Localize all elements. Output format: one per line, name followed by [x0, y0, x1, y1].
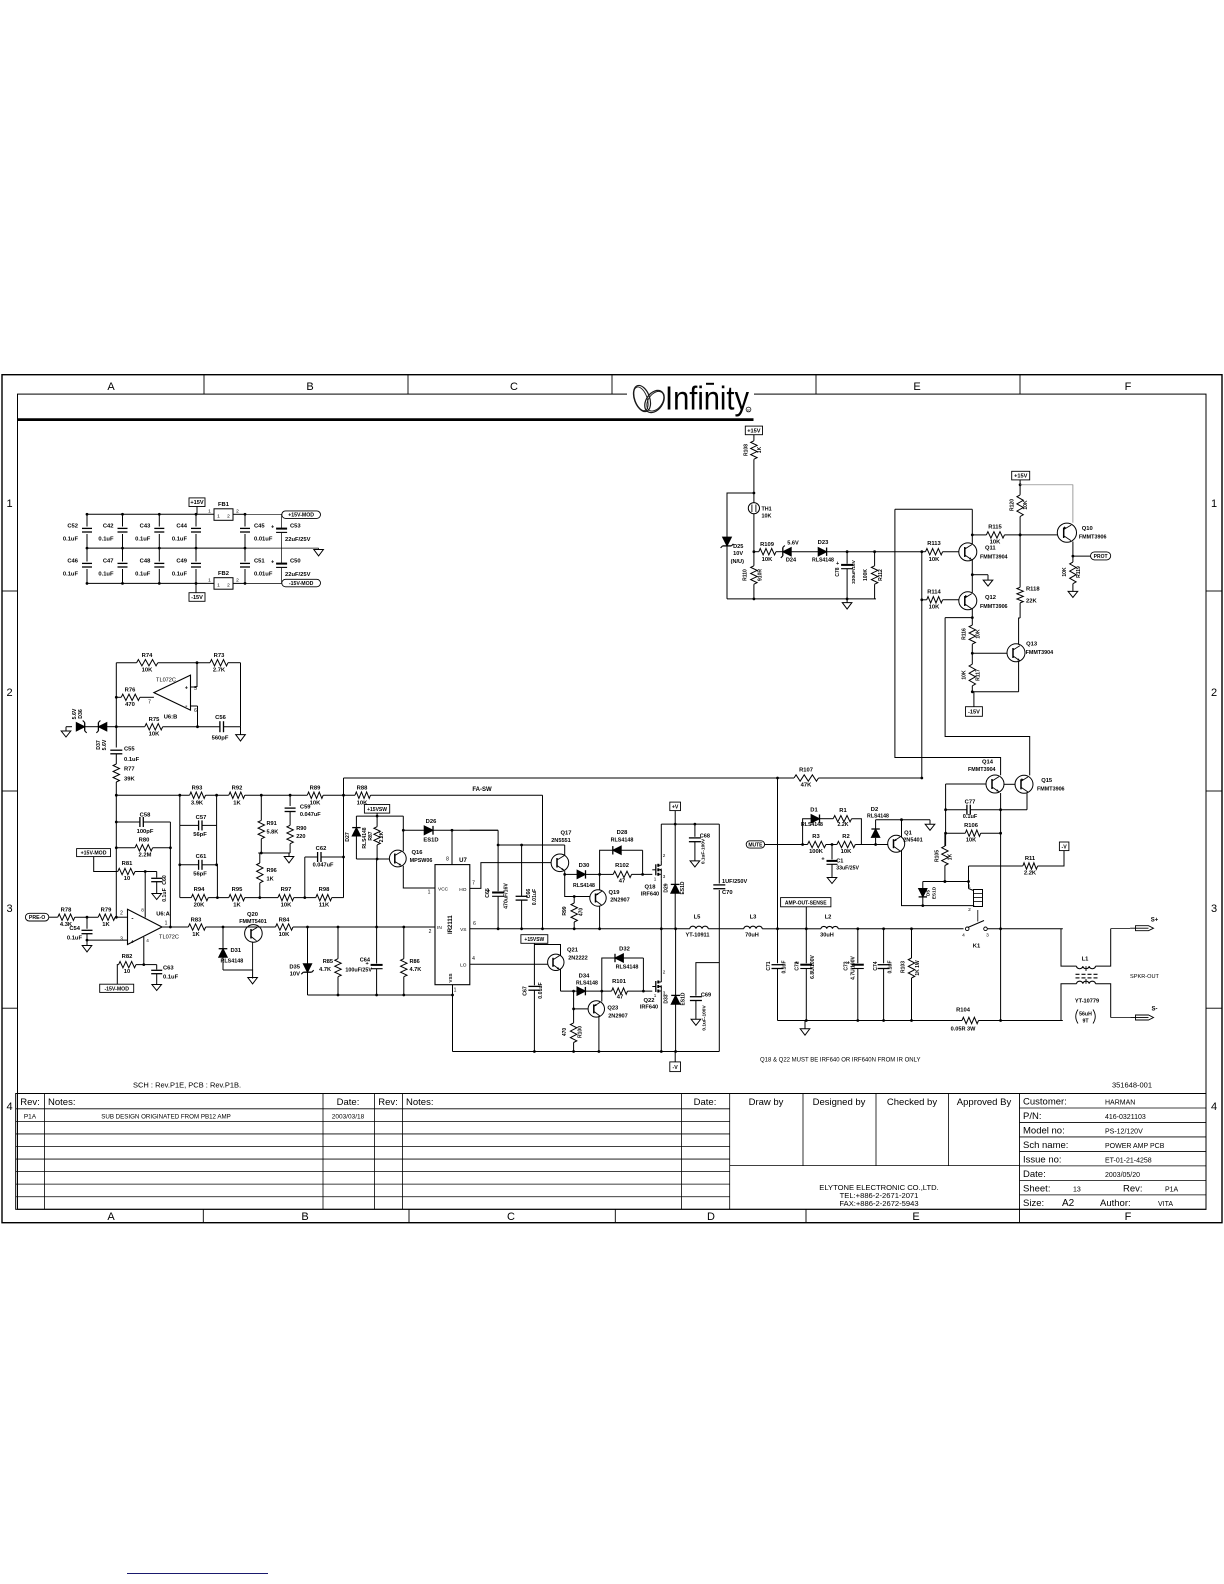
feedback capacitor C58 100pF — [116, 821, 139, 823]
svg-text:PS-12/120V: PS-12/120V — [1105, 1128, 1143, 1135]
svg-text:-V: -V — [1062, 844, 1068, 850]
svg-text:C64: C64 — [360, 958, 371, 964]
svg-text:1K: 1K — [233, 902, 241, 908]
capacitor C45 0.01uF — [244, 514, 246, 526]
svg-text:C63: C63 — [163, 966, 174, 972]
svg-text:416-0321103: 416-0321103 — [1105, 1114, 1146, 1121]
wire D2 to ground line — [876, 819, 930, 821]
diode D33 ES1D freewheel low — [675, 929, 677, 996]
svg-text:R97: R97 — [281, 887, 292, 893]
wire feedback right vertical — [169, 822, 171, 927]
resistor R115 10K — [986, 532, 1004, 538]
svg-text:D27: D27 — [345, 832, 351, 842]
svg-text:5.6V: 5.6V — [102, 739, 108, 750]
svg-text:1: 1 — [217, 514, 220, 520]
svg-text:R76: R76 — [125, 688, 136, 694]
resistor R91 5.8K vertical — [260, 795, 262, 820]
svg-text:22uF/25V: 22uF/25V — [285, 572, 311, 578]
svg-text:7: 7 — [148, 700, 151, 706]
zener diode D24 5.6V — [776, 551, 783, 553]
wire D26 to VB — [433, 829, 498, 831]
svg-text:13: 13 — [1073, 1186, 1081, 1193]
resistor R112 100K vertical — [874, 552, 876, 566]
net label +15VSW lower — [521, 935, 548, 944]
wire Q14 base column from R107 line — [921, 777, 923, 779]
svg-text:0.1uF: 0.1uF — [63, 537, 79, 543]
svg-text:+15V-MOD: +15V-MOD — [81, 851, 107, 857]
transistor Q13 FMMT3904 — [1007, 644, 1025, 662]
svg-text:-15V-MOD: -15V-MOD — [104, 986, 129, 992]
capacitor C71 0.1uF — [777, 929, 779, 964]
mid bus wire — [87, 547, 245, 549]
svg-text:+: + — [271, 560, 274, 566]
svg-text:Date:: Date: — [694, 1097, 717, 1108]
resistor R97 10K — [278, 894, 294, 900]
svg-text:2.2M: 2.2M — [139, 853, 152, 859]
ground — [827, 878, 837, 884]
wire U6B pin5 — [191, 686, 198, 688]
svg-text:SPKR-OUT: SPKR-OUT — [1130, 974, 1159, 980]
svg-text:Sheet:: Sheet: — [1023, 1183, 1050, 1194]
svg-text:+15VSW: +15VSW — [367, 807, 387, 813]
wire D25 branch — [727, 493, 754, 537]
svg-text:C61: C61 — [196, 854, 207, 860]
resistor R109 10K — [754, 551, 759, 553]
svg-text:FMMT3906: FMMT3906 — [1079, 535, 1107, 541]
svg-text:C56: C56 — [215, 715, 226, 721]
svg-text:C73: C73 — [844, 961, 850, 970]
svg-text:2N5551: 2N5551 — [551, 838, 571, 844]
svg-text:YT-10779: YT-10779 — [1075, 999, 1099, 1005]
ground — [152, 894, 162, 900]
svg-text:C44: C44 — [176, 524, 187, 530]
svg-text:4: 4 — [6, 1101, 12, 1113]
svg-text:C62: C62 — [316, 846, 327, 852]
capacitor C49 0.1uF — [195, 548, 197, 561]
wire R114 tap — [921, 552, 923, 600]
svg-text:56uH: 56uH — [1079, 1011, 1092, 1017]
svg-text:+: + — [131, 939, 134, 945]
ground — [248, 978, 258, 984]
svg-text:C43: C43 — [140, 524, 151, 530]
wire Q21 collector to +15VSW — [534, 945, 560, 956]
wire +15VSW to C67 column — [533, 943, 535, 985]
thermistor TH1 10K — [753, 493, 755, 503]
svg-text:R80: R80 — [139, 838, 150, 844]
svg-text:R114: R114 — [927, 590, 941, 596]
svg-text:3: 3 — [120, 937, 123, 943]
svg-text:C: C — [510, 381, 518, 393]
svg-text:1: 1 — [968, 884, 971, 890]
svg-text:4.7K: 4.7K — [319, 967, 331, 973]
svg-text:FMMT3906: FMMT3906 — [1037, 786, 1065, 792]
svg-text:R117: R117 — [975, 669, 981, 681]
svg-text:SUB DESIGN ORIGINATED FROM PB1: SUB DESIGN ORIGINATED FROM PB12 AMP — [101, 1114, 231, 1121]
svg-text:RLS4148: RLS4148 — [611, 837, 634, 843]
net label PRE-O input — [25, 913, 48, 921]
svg-text:RLS4148: RLS4148 — [573, 883, 595, 889]
svg-text:R90: R90 — [296, 826, 306, 832]
svg-text:Q20: Q20 — [247, 912, 258, 918]
svg-text:+15V-MOD: +15V-MOD — [288, 513, 314, 519]
svg-text:HO: HO — [459, 887, 466, 893]
svg-text:R74: R74 — [142, 653, 153, 659]
resistor R114 10K — [927, 597, 943, 603]
capacitor C63 0.1uF — [144, 964, 157, 966]
wire Q19 base branch — [565, 874, 590, 896]
svg-text:C60: C60 — [162, 875, 168, 885]
wire Q10 base — [1056, 534, 1058, 536]
svg-text:Q17: Q17 — [561, 831, 572, 837]
svg-text:FB2: FB2 — [218, 571, 229, 577]
svg-text:4: 4 — [472, 956, 475, 962]
svg-text:L2: L2 — [825, 915, 832, 921]
svg-text:0.1uF: 0.1uF — [135, 537, 151, 543]
svg-text:+: + — [185, 686, 188, 692]
svg-text:D26: D26 — [426, 819, 437, 825]
svg-text:0.1uF: 0.1uF — [163, 975, 179, 981]
resistor R103 1K 1W vertical — [911, 929, 913, 958]
revision table column dividers — [44, 1094, 46, 1210]
svg-text:R77: R77 — [124, 767, 135, 773]
capacitor C56 560pF — [219, 721, 221, 732]
resistor R78 4.3K — [58, 914, 75, 920]
wire Q16 emitter to VCC — [403, 866, 435, 888]
ground — [86, 940, 88, 945]
capacitor C51 0.01uF — [244, 548, 246, 561]
power label -15V — [189, 593, 205, 602]
wire -15V node — [972, 691, 1018, 693]
svg-text:1UF/250V: 1UF/250V — [722, 879, 747, 885]
svg-text:Q13: Q13 — [1026, 642, 1038, 648]
wire L1 top winding to S+ — [1096, 929, 1111, 967]
relay K1 coil — [974, 890, 983, 907]
svg-text:Q15: Q15 — [1041, 778, 1053, 784]
ground — [65, 727, 67, 731]
transistor Q14 FMMT3904 — [986, 775, 1004, 793]
wire Q18 source to VS — [660, 879, 662, 929]
svg-text:C58: C58 — [140, 813, 151, 819]
revision table row lines — [16, 1108, 730, 1110]
diode D5 ES1D relay clamp — [922, 882, 924, 889]
revision table outline — [16, 1094, 1206, 1210]
svg-text:10K: 10K — [281, 902, 292, 908]
wire output to Q20 D31 node — [206, 926, 245, 928]
svg-text:C: C — [507, 1211, 515, 1223]
right margin row dividers — [1206, 590, 1222, 592]
capacitor C50 22uF/25V — [276, 563, 287, 565]
svg-text:Rev:: Rev: — [378, 1097, 398, 1108]
svg-text:S-: S- — [1152, 1007, 1158, 1013]
svg-text:Q18: Q18 — [645, 884, 657, 890]
svg-text:10K: 10K — [966, 837, 976, 843]
svg-text:R103: R103 — [901, 961, 907, 973]
svg-text:Q12: Q12 — [985, 595, 996, 601]
svg-text:R100: R100 — [578, 1026, 584, 1038]
svg-text:C72: C72 — [795, 961, 801, 970]
wire logic bottom bus — [308, 994, 453, 996]
svg-text:D31: D31 — [231, 948, 242, 954]
svg-text:A2: A2 — [1062, 1198, 1075, 1209]
svg-text:10K: 10K — [841, 849, 852, 855]
wire output feedback tap column — [777, 778, 779, 929]
svg-text:470uF/16V: 470uF/16V — [504, 883, 510, 909]
inductor L3 70uH — [744, 926, 762, 929]
svg-text:U6:B: U6:B — [164, 715, 178, 721]
svg-text:10K: 10K — [961, 670, 967, 680]
svg-text:VS: VS — [460, 927, 466, 933]
svg-text:PRE-O: PRE-O — [29, 915, 45, 921]
svg-text:C47: C47 — [103, 559, 114, 565]
svg-text:2: 2 — [1211, 687, 1217, 699]
svg-text:D30: D30 — [579, 863, 590, 869]
wire lower gate line — [561, 990, 578, 992]
svg-text:R116: R116 — [961, 628, 967, 640]
diode D27 RLS4148 — [355, 816, 357, 827]
capacitor C65 470uF/16V bootstrap — [497, 845, 499, 891]
svg-text:Customer:: Customer: — [1023, 1097, 1067, 1108]
capacitor C48 0.1uF — [158, 548, 160, 561]
transistor Q11 FMMT3904 — [959, 543, 977, 561]
power net -15V-MOD — [100, 984, 134, 992]
svg-text:R113: R113 — [927, 541, 941, 547]
svg-text:-: - — [131, 915, 133, 922]
svg-text:PROT: PROT — [1094, 554, 1108, 560]
svg-text:0.01uF: 0.01uF — [532, 889, 538, 905]
svg-text:10K: 10K — [357, 800, 368, 806]
resistor R11 2.2K — [969, 865, 1023, 867]
svg-text:1K: 1K — [267, 877, 274, 883]
svg-text:L5: L5 — [694, 915, 702, 921]
wire Q23 collector to bus — [598, 1016, 600, 1052]
svg-text:VITA: VITA — [1158, 1201, 1173, 1208]
wire R107 column — [921, 600, 923, 778]
wire gate drive line upper — [565, 873, 577, 875]
svg-text:1K: 1K — [233, 800, 241, 806]
svg-text:HARMAN: HARMAN — [1105, 1100, 1135, 1107]
svg-text:R83: R83 — [191, 917, 202, 923]
svg-text:C50: C50 — [290, 559, 301, 565]
svg-text:D33: D33 — [664, 994, 670, 1003]
svg-text:100K: 100K — [809, 849, 824, 855]
wire protect ground rail — [727, 598, 876, 600]
svg-text:(N/U): (N/U) — [731, 559, 744, 565]
svg-text:30uH: 30uH — [820, 933, 834, 939]
svg-text:Q23: Q23 — [607, 1006, 619, 1012]
wire +15V to top bus — [196, 507, 198, 515]
wire Q16 collector to +15VSW bus and D26 — [402, 816, 404, 851]
power label -15V — [966, 707, 983, 717]
feedback resistor R80 2.2M — [116, 847, 135, 849]
svg-text:C78: C78 — [835, 567, 841, 576]
wire relay coil top net — [923, 881, 969, 883]
wire Q13 base line — [972, 652, 1007, 654]
resistor R87 2.2K vertical — [376, 816, 378, 827]
svg-text:R1: R1 — [839, 808, 847, 814]
transistor Q23 2N2907 — [588, 1001, 604, 1017]
wire Q11 emitter to Q12 emitter — [971, 560, 973, 593]
svg-text:C42: C42 — [103, 524, 114, 530]
ground — [690, 861, 700, 867]
wire R118 column to Q13 collector — [1019, 535, 1021, 587]
svg-text:2.2K: 2.2K — [838, 822, 849, 828]
wire FB1 node to +15V-MOD — [245, 513, 282, 515]
power label -V — [670, 1062, 681, 1072]
svg-text:10K: 10K — [762, 514, 772, 520]
diode D28 RLS4148 gate bypass — [600, 850, 613, 874]
svg-text:IN: IN — [437, 925, 442, 931]
capacitor C67 0.01uF — [528, 985, 540, 987]
svg-text:R93: R93 — [192, 786, 203, 792]
capacitor C69 0.1uF-100V — [696, 963, 719, 996]
svg-text:Notes:: Notes: — [406, 1097, 433, 1108]
wire U6B pin6 — [191, 705, 198, 707]
resistor R101 47 — [612, 988, 628, 994]
bottom margin column dividers — [202, 1209, 204, 1222]
svg-text:FB1: FB1 — [218, 502, 230, 508]
wire Q17 emitter to gate line — [564, 871, 566, 875]
svg-text:8: 8 — [141, 908, 144, 913]
svg-text:0.1uF: 0.1uF — [887, 960, 893, 973]
svg-text:R84: R84 — [279, 917, 290, 923]
wire L1 bottom winding left to ground bus — [1061, 984, 1077, 1021]
resistor R90 220 vertical — [287, 825, 293, 843]
ground — [929, 820, 931, 825]
svg-text:10K: 10K — [279, 932, 290, 938]
left margin row dividers — [2, 590, 18, 592]
wire input — [49, 916, 58, 918]
wire mute line — [765, 844, 808, 846]
net label MUTE — [746, 841, 764, 848]
resistor R107 47K — [794, 775, 819, 781]
resistor R117 10K vertical — [971, 653, 973, 664]
diode D23 RLS4148 — [791, 551, 818, 553]
wire grounded mid line — [258, 852, 290, 854]
svg-text:RLS4148: RLS4148 — [576, 980, 598, 986]
capacitor C55 0.1uF — [110, 749, 122, 751]
wire left rail upper — [115, 663, 117, 748]
capacitor C66 0.01uF bootstrap — [521, 845, 523, 896]
svg-text:R95: R95 — [232, 887, 243, 893]
svg-text:5.6V: 5.6V — [787, 541, 799, 547]
Infinity logo i-macron — [706, 383, 714, 385]
sheet inner border frame — [18, 394, 1207, 1209]
svg-text:+: + — [821, 857, 824, 863]
thick rule under logo — [18, 418, 754, 421]
resistor R96 1K vertical — [257, 863, 263, 883]
svg-text:0.1uF-100V: 0.1uF-100V — [702, 1005, 708, 1031]
capacitor C72 6.8U/100V — [805, 929, 807, 964]
wire R115 line — [972, 534, 986, 536]
power net +15V-MOD — [77, 849, 111, 857]
transistor Q15 FMMT3906 — [1015, 775, 1033, 793]
svg-text:0.05R 3W: 0.05R 3W — [951, 1026, 977, 1032]
svg-text:ET-01-21-4258: ET-01-21-4258 — [1105, 1157, 1152, 1164]
svg-text:1: 1 — [654, 877, 657, 882]
resistor R84 10K — [276, 924, 294, 930]
resistor R82 10 — [119, 961, 136, 967]
capacitor C42 0.1uF — [122, 514, 124, 526]
svg-text:C71: C71 — [766, 961, 772, 970]
svg-text:-15V: -15V — [968, 710, 980, 716]
svg-text:R106: R106 — [964, 823, 979, 829]
svg-text:10K: 10K — [929, 557, 940, 563]
capacitor C64 100uF/25V — [376, 927, 378, 964]
svg-text:70uH: 70uH — [745, 933, 759, 939]
svg-text:R115: R115 — [988, 525, 1002, 531]
wire bootstrap node line — [498, 844, 565, 846]
svg-text:560pF: 560pF — [212, 736, 229, 742]
svg-text:F: F — [1125, 381, 1132, 393]
svg-text:4.7U/100V: 4.7U/100V — [851, 956, 857, 980]
svg-text:FMMT3904: FMMT3904 — [1026, 650, 1054, 656]
svg-text:C1: C1 — [836, 859, 843, 865]
svg-text:10K: 10K — [310, 800, 321, 806]
svg-text:Notes:: Notes: — [48, 1097, 75, 1108]
svg-text:R120: R120 — [1009, 499, 1015, 511]
svg-text:POWER AMP PCB: POWER AMP PCB — [1105, 1143, 1165, 1150]
wire Q22 drain to VS — [660, 929, 662, 978]
ground — [314, 550, 324, 556]
Infinity logo white block over margin — [627, 376, 754, 416]
svg-text:ES1D: ES1D — [932, 886, 938, 899]
svg-text:MUTE: MUTE — [748, 842, 763, 848]
svg-text:Model no:: Model no: — [1023, 1125, 1065, 1136]
svg-text:K1: K1 — [973, 944, 981, 950]
resistor R95 1K — [229, 894, 245, 900]
svg-text:Date:: Date: — [1023, 1169, 1046, 1180]
wire Q11 collector — [971, 535, 973, 544]
wire FB2 node to -15V-MOD — [245, 582, 282, 584]
svg-text:10K: 10K — [762, 557, 773, 563]
svg-text:C65: C65 — [485, 888, 491, 898]
footer underline mark — [127, 1573, 268, 1575]
net label +15V-MOD — [282, 511, 321, 519]
svg-text:Size:: Size: — [1023, 1198, 1044, 1209]
svg-text:470: 470 — [579, 908, 585, 917]
capacitor C52 0.1uF — [86, 514, 88, 526]
resistor R85 4.7K vertical — [337, 927, 339, 959]
resistor R3 100K — [808, 841, 826, 847]
ground — [846, 599, 848, 603]
svg-text:C70: C70 — [722, 890, 733, 896]
wire R82 to pin4 — [136, 937, 144, 965]
wire filter bottom line — [179, 865, 181, 898]
svg-text:R119: R119 — [1076, 566, 1082, 578]
wire Q18 drain to +V bus — [660, 824, 662, 861]
wire Q15 emitter down — [1026, 793, 1028, 809]
wire Q23 emitter up — [601, 991, 603, 1001]
svg-text:0.1uF: 0.1uF — [124, 757, 140, 763]
svg-text:E: E — [912, 1211, 919, 1223]
svg-text:U7: U7 — [459, 858, 467, 864]
wire to C54 node — [75, 916, 98, 918]
wire Q14 emitter column — [1000, 793, 1002, 1021]
svg-text:FMMT3906: FMMT3906 — [980, 604, 1008, 610]
wire C53 C50 rail — [281, 514, 283, 528]
svg-text:P/N:: P/N: — [1023, 1111, 1041, 1122]
svg-text:470: 470 — [562, 1028, 568, 1037]
capacitor C68 0.1uF-100V — [694, 824, 696, 837]
svg-text:0.01uF: 0.01uF — [254, 537, 273, 543]
svg-text:TL072C: TL072C — [156, 678, 176, 684]
power label +15V — [1012, 471, 1030, 480]
svg-text:R96: R96 — [267, 868, 277, 874]
terminal S+ — [1136, 926, 1154, 931]
svg-text:FMMT5401: FMMT5401 — [239, 919, 267, 925]
capacitor C77 0.1uF — [946, 809, 967, 811]
title block divider draw/designed cells bottom — [730, 1165, 1020, 1167]
